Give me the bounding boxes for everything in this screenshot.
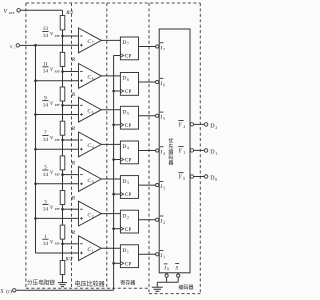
node CP bus junction bbox=[112, 227, 115, 230]
wire flip-flop D2 output to encoder input bbox=[139, 219, 156, 221]
pin encoder input I4 (circle) bbox=[156, 149, 159, 152]
wire v_i bus branch to comparator C7 non-inverting input bbox=[36, 44, 79, 46]
svg-text:2: 2 bbox=[215, 126, 217, 130]
svg-text:i: i bbox=[14, 46, 15, 50]
svg-text:6: 6 bbox=[127, 78, 129, 82]
pin encoder input I3 (circle) bbox=[156, 184, 159, 187]
svg-text:D: D bbox=[122, 179, 126, 185]
wire flip-flop D7 output to encoder input bbox=[139, 46, 156, 48]
svg-text:CP: CP bbox=[125, 54, 132, 60]
svg-text:R: R bbox=[71, 161, 76, 167]
svg-text:REF: REF bbox=[55, 34, 61, 38]
wire comparator C4 output to flip-flop D4 bbox=[101, 143, 120, 145]
wire v_i to bus bbox=[20, 44, 36, 46]
svg-text:C: C bbox=[87, 109, 91, 115]
pin CP clock wedge of flip-flop D2 bbox=[120, 227, 123, 231]
dashed bottom edge under divider/comparator/register blocks bbox=[26, 287, 149, 289]
dashed box right edge (encoder block) bbox=[199, 3, 201, 294]
svg-text:S: S bbox=[175, 266, 178, 272]
svg-text:REF: REF bbox=[9, 11, 15, 15]
priority encoder U (74148-style) bbox=[159, 29, 190, 273]
svg-text:C: C bbox=[87, 39, 91, 45]
terminal v_i bbox=[16, 44, 19, 47]
svg-text:分压电阻链: 分压电阻链 bbox=[27, 279, 55, 287]
comparator C3 bbox=[79, 167, 102, 192]
wire CP bus branch to flip-flop D1 bbox=[114, 262, 121, 264]
wire CP bus branch to flip-flop D4 bbox=[114, 159, 121, 161]
svg-text:4: 4 bbox=[92, 146, 94, 150]
svg-text:7: 7 bbox=[127, 43, 129, 47]
svg-text:): ) bbox=[10, 288, 12, 295]
pin encoder input I6 (circle) bbox=[156, 80, 159, 83]
svg-text:6: 6 bbox=[163, 83, 165, 87]
terminal D1 bbox=[204, 149, 208, 153]
wire tap to comparator C5 inverting input bbox=[63, 104, 79, 106]
wire v_i bus branch to comparator C2 non-inverting input bbox=[36, 217, 79, 219]
svg-text:CP: CP bbox=[125, 158, 132, 164]
svg-text:5: 5 bbox=[92, 111, 94, 115]
node tap 9/14 VREF bbox=[61, 104, 64, 107]
flip-flop D5 bbox=[120, 106, 138, 129]
svg-text:14: 14 bbox=[43, 137, 49, 143]
svg-text:C: C bbox=[87, 212, 91, 218]
comparator C4 bbox=[79, 132, 102, 157]
node tap 1/14 VREF bbox=[61, 243, 64, 246]
svg-text:R: R bbox=[71, 126, 76, 132]
svg-text:S: S bbox=[1, 289, 4, 295]
svg-text:14: 14 bbox=[43, 69, 49, 75]
pin CP clock wedge of flip-flop D1 bbox=[120, 262, 123, 266]
svg-text:CP: CP bbox=[125, 227, 132, 233]
comparator C5 bbox=[79, 97, 102, 122]
node v_i bus junction bbox=[34, 217, 37, 220]
svg-text:REF: REF bbox=[55, 103, 61, 107]
svg-text:7: 7 bbox=[163, 48, 165, 52]
svg-text:1: 1 bbox=[127, 250, 129, 254]
svg-text:5: 5 bbox=[127, 112, 129, 116]
pin encoder output Y2 (circle) bbox=[190, 123, 193, 126]
svg-text:14: 14 bbox=[43, 241, 49, 247]
wire tap to comparator C6 inverting input bbox=[63, 71, 79, 73]
wire chain vertical (V_REF down to bottom R/2) bbox=[62, 10, 64, 274]
svg-text:器: 器 bbox=[168, 161, 173, 167]
wire comparator C2 output to flip-flop D2 bbox=[101, 213, 120, 215]
dashed divider: register / encoder boundary bbox=[148, 3, 150, 294]
terminal D2 bbox=[204, 123, 208, 127]
wire S stem to ground bus bbox=[177, 277, 179, 282]
resistor R (between taps) bbox=[60, 191, 65, 205]
ground (divider chain) bbox=[58, 282, 67, 284]
svg-text:1: 1 bbox=[183, 151, 185, 155]
flip-flop D1 bbox=[120, 245, 138, 268]
wire tap to comparator C3 inverting input bbox=[63, 174, 79, 176]
svg-text:3: 3 bbox=[127, 181, 129, 185]
resistor R (between taps) bbox=[60, 225, 65, 239]
wire flip-flop D4 output to encoder input bbox=[139, 150, 156, 152]
comparator C6 bbox=[79, 64, 102, 89]
wire V_REF to divider chain top bbox=[20, 9, 62, 11]
svg-text:CP: CP bbox=[125, 192, 132, 198]
svg-text:R: R bbox=[71, 92, 76, 98]
wire encoder output Y0 to terminal D0 bbox=[194, 176, 205, 178]
flip-flop D3 bbox=[120, 176, 138, 199]
wire v_i bus branch to comparator C1 non-inverting input bbox=[36, 252, 79, 254]
wire encoder output Y2 to terminal D2 bbox=[194, 123, 205, 125]
wire tap to comparator C4 inverting input bbox=[63, 139, 79, 141]
wire tap to comparator C2 inverting input bbox=[63, 208, 79, 210]
terminal S(t) bbox=[13, 289, 16, 292]
wire v_i bus branch to comparator C6 non-inverting input bbox=[36, 80, 79, 82]
wire ground bus under encoder bbox=[157, 281, 178, 283]
wire comparator C6 output to flip-flop D6 bbox=[101, 75, 120, 77]
comparator C1 bbox=[79, 236, 102, 261]
node CP bus junction bbox=[112, 158, 115, 161]
svg-text:D: D bbox=[122, 110, 126, 116]
svg-text:2: 2 bbox=[163, 221, 165, 225]
svg-text:2: 2 bbox=[127, 216, 129, 220]
wire I0 stem to ground bus bbox=[166, 277, 168, 282]
node CP bus junction bbox=[112, 193, 115, 196]
pin CP clock wedge of flip-flop D6 bbox=[120, 89, 123, 93]
pin encoder input I2 (circle) bbox=[156, 218, 159, 221]
svg-text:4: 4 bbox=[163, 152, 165, 156]
svg-text:2: 2 bbox=[92, 215, 94, 219]
terminal V_REF bbox=[17, 9, 20, 12]
svg-text:REF: REF bbox=[55, 69, 61, 73]
terminal D0 bbox=[204, 175, 208, 179]
svg-text:REF: REF bbox=[55, 242, 61, 246]
dashed box left edge (divider block) bbox=[25, 3, 27, 288]
svg-text:0: 0 bbox=[183, 177, 185, 181]
svg-text:R: R bbox=[71, 230, 76, 236]
svg-text:0: 0 bbox=[215, 178, 217, 182]
wire CP bus branch to flip-flop D7 bbox=[114, 55, 121, 57]
pin encoder output Y0 (circle) bbox=[190, 175, 193, 178]
svg-text:5: 5 bbox=[163, 117, 165, 121]
svg-text:D: D bbox=[122, 213, 126, 219]
svg-text:2: 2 bbox=[183, 125, 185, 129]
svg-text:0: 0 bbox=[167, 268, 169, 272]
svg-text:CP: CP bbox=[125, 261, 132, 267]
svg-text:REF: REF bbox=[55, 207, 61, 211]
svg-text:14: 14 bbox=[43, 172, 49, 178]
node v_i bus junction bbox=[34, 113, 37, 116]
comparator C7 bbox=[79, 28, 102, 53]
svg-text:C: C bbox=[87, 75, 91, 81]
wire flip-flop D6 output to encoder input bbox=[139, 81, 156, 83]
node tap 11/14 VREF bbox=[61, 70, 64, 73]
wire CP bus branch to flip-flop D5 bbox=[114, 124, 121, 126]
svg-text:编码器: 编码器 bbox=[178, 284, 193, 291]
wire v_i bus branch to comparator C3 non-inverting input bbox=[36, 183, 79, 185]
ground stem of divider chain bbox=[62, 275, 64, 283]
svg-text:D: D bbox=[122, 144, 126, 150]
resistor R (between taps) bbox=[60, 52, 65, 66]
wire v_i bus branch to comparator C4 non-inverting input bbox=[36, 148, 79, 150]
svg-text:C: C bbox=[87, 247, 91, 253]
svg-text:3: 3 bbox=[163, 186, 165, 190]
dashed bottom edge under encoder block bbox=[149, 293, 200, 295]
svg-text:REF: REF bbox=[55, 138, 61, 142]
pin encoder input I1 (circle) bbox=[156, 253, 159, 256]
pin encoder input I5 (circle) bbox=[156, 114, 159, 117]
node v_i bus junction bbox=[34, 79, 37, 82]
svg-text:C: C bbox=[87, 178, 91, 184]
wire comparator C3 output to flip-flop D3 bbox=[101, 178, 120, 180]
svg-text:D: D bbox=[122, 76, 126, 82]
node v_i bus junction bbox=[34, 148, 37, 151]
svg-text:3: 3 bbox=[92, 180, 94, 184]
dashed divider: resistor-chain / comparator boundary bbox=[71, 3, 73, 288]
svg-text:REF: REF bbox=[55, 172, 61, 176]
ground stem (encoder) bbox=[156, 282, 158, 287]
svg-text:14: 14 bbox=[43, 103, 49, 109]
svg-text:CP: CP bbox=[125, 123, 132, 129]
dashed divider: comparator / register boundary bbox=[106, 3, 108, 288]
wire encoder output Y1 to terminal D1 bbox=[194, 149, 205, 151]
node CP bus junction bbox=[112, 262, 115, 265]
svg-text:14: 14 bbox=[43, 206, 49, 212]
wire comparator C5 output to flip-flop D5 bbox=[101, 109, 120, 111]
node tap 5/14 VREF bbox=[61, 173, 64, 176]
wire CP bus branch to flip-flop D3 bbox=[114, 193, 121, 195]
node v_i bus junction bbox=[34, 183, 37, 186]
wire comparator C7 output to flip-flop D7 bbox=[101, 39, 120, 41]
pin I0 (circle) bbox=[166, 273, 168, 274]
flip-flop D7 bbox=[120, 37, 138, 60]
wire tap to comparator C1 inverting input bbox=[63, 243, 79, 245]
svg-text:D: D bbox=[122, 248, 126, 254]
svg-text:1: 1 bbox=[215, 152, 217, 156]
wire tap to comparator C7 inverting input bbox=[63, 35, 79, 37]
comparator C2 bbox=[79, 201, 102, 226]
svg-text:1: 1 bbox=[163, 256, 165, 260]
pin CP clock wedge of flip-flop D7 bbox=[120, 54, 123, 58]
pin encoder output Y1 (circle) bbox=[190, 149, 193, 152]
wire flip-flop D5 output to encoder input bbox=[139, 115, 156, 117]
pin CP clock wedge of flip-flop D3 bbox=[120, 192, 123, 196]
svg-text:1: 1 bbox=[92, 249, 94, 253]
svg-text:7: 7 bbox=[92, 42, 94, 46]
flip-flop D2 bbox=[120, 210, 138, 233]
wire flip-flop D3 output to encoder input bbox=[139, 184, 156, 186]
svg-text:6: 6 bbox=[92, 77, 94, 81]
pin encoder input I7 (circle) bbox=[156, 45, 159, 48]
svg-text:电压比较器: 电压比较器 bbox=[75, 280, 105, 288]
wire v_i vertical bus bbox=[35, 45, 37, 253]
pin CP clock wedge of flip-flop D4 bbox=[120, 158, 123, 162]
wire flip-flop D1 output to encoder input bbox=[139, 253, 156, 255]
svg-text:4: 4 bbox=[127, 147, 129, 151]
ground (encoder) bbox=[152, 286, 163, 288]
resistor R (between taps) bbox=[60, 87, 65, 101]
flip-flop D4 bbox=[120, 141, 138, 164]
dashed box top edge bbox=[26, 2, 200, 4]
flip-flop D6 bbox=[120, 73, 138, 96]
wire CP bus branch to flip-flop D6 bbox=[114, 90, 121, 92]
wire comparator C1 output to flip-flop D1 bbox=[101, 247, 120, 249]
resistor R (between taps) bbox=[60, 156, 65, 170]
node CP bus junction bbox=[112, 124, 115, 127]
svg-text:R: R bbox=[71, 57, 76, 63]
svg-text:CP: CP bbox=[125, 89, 132, 95]
svg-text:R/2: R/2 bbox=[64, 256, 73, 262]
wire CP vertical bus bbox=[113, 56, 115, 291]
svg-text:C: C bbox=[87, 143, 91, 149]
wire CP bus branch to flip-flop D2 bbox=[114, 228, 121, 230]
node tap 7/14 VREF bbox=[61, 139, 64, 142]
node tap 3/14 VREF bbox=[61, 208, 64, 211]
node CP bus junction bbox=[112, 90, 115, 93]
svg-text:D: D bbox=[122, 40, 126, 46]
pin CP clock wedge of flip-flop D5 bbox=[120, 123, 123, 127]
pin S (circle) bbox=[177, 273, 179, 274]
wire v_i bus branch to comparator C5 non-inverting input bbox=[36, 114, 79, 116]
svg-text:R/2: R/2 bbox=[65, 10, 74, 16]
svg-text:寄存器: 寄存器 bbox=[120, 280, 135, 287]
resistor R/2 (bottom) bbox=[60, 261, 65, 275]
svg-text:14: 14 bbox=[43, 33, 49, 39]
svg-text:R: R bbox=[71, 195, 76, 201]
resistor R/2 (top) bbox=[60, 16, 65, 30]
wire S(t) to CP bus bbox=[16, 289, 114, 291]
node tap 13/14 VREF bbox=[61, 35, 64, 38]
resistor R (between taps) bbox=[60, 121, 65, 135]
node v_i bus junction bbox=[34, 44, 37, 47]
